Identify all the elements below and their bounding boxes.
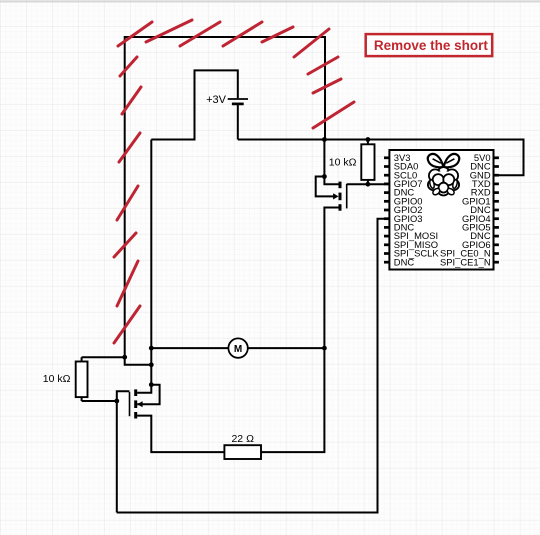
svg-text:10 kΩ: 10 kΩ	[43, 373, 71, 385]
svg-text:10 kΩ: 10 kΩ	[329, 156, 357, 168]
svg-text:+3V: +3V	[206, 94, 227, 106]
svg-text:M: M	[234, 344, 242, 355]
svg-text:SPI_CE1_N: SPI_CE1_N	[440, 256, 491, 267]
svg-text:22 Ω: 22 Ω	[231, 433, 254, 445]
svg-text:DNC: DNC	[394, 256, 415, 267]
svg-text:Remove the short: Remove the short	[374, 38, 489, 53]
